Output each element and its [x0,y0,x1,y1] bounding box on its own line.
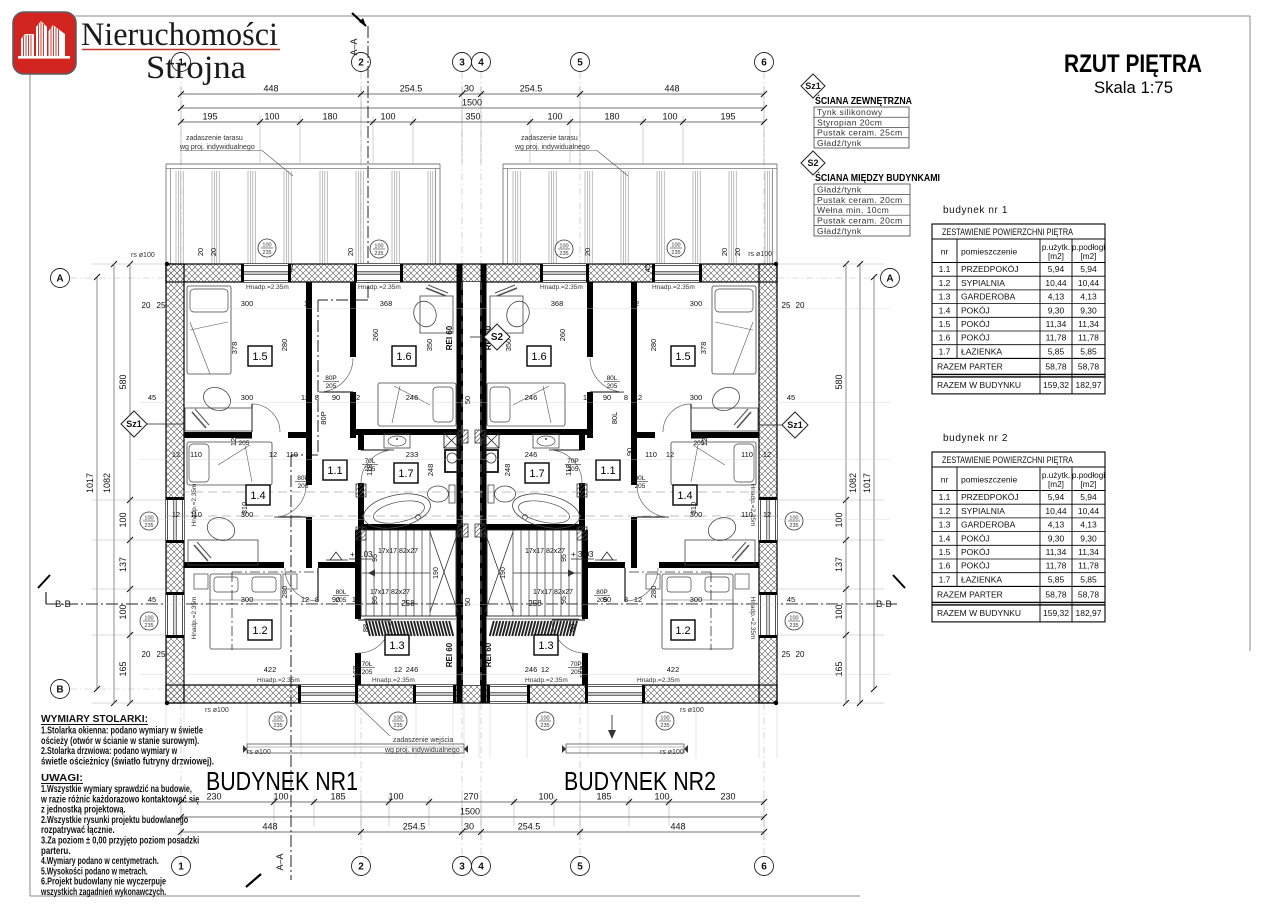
svg-text:ŁAZIENKA: ŁAZIENKA [961,574,1002,584]
svg-text:ZESTAWIENIE POWIERZCHNI PIĘT: ZESTAWIENIE POWIERZCHNI PIĘTRA [942,455,1073,465]
svg-text:258: 258 [401,599,415,608]
svg-text:182,97: 182,97 [1076,380,1102,390]
svg-text:A: A [56,274,63,285]
svg-text:1.4: 1.4 [677,490,692,502]
svg-text:Hnadp.=2.35m: Hnadp.=2.35m [257,677,300,684]
svg-text:248: 248 [426,464,435,477]
terrace roof building 1 [166,163,440,165]
svg-text:pomieszczenie: pomieszczenie [961,247,1017,257]
svg-text:9,30: 9,30 [1048,533,1065,543]
svg-text:+ 3.03: + 3.03 [350,550,373,559]
svg-text:4,13: 4,13 [1048,520,1065,530]
svg-text:58,78: 58,78 [1078,589,1100,599]
knee wall dashed line lower [166,515,777,517]
svg-text:1.4: 1.4 [939,305,951,315]
svg-text:12: 12 [172,510,180,519]
window label circle 100/235 [656,712,674,730]
legend table S2 wall layers [814,184,910,236]
svg-text:100: 100 [671,243,680,249]
svg-text:88: 88 [361,624,370,632]
svg-text:25: 25 [782,650,791,659]
window left wall room 1.4 [166,500,184,540]
svg-text:RAZEM PARTER: RAZEM PARTER [937,589,1003,599]
svg-text:Hnadp.=2.35m: Hnadp.=2.35m [372,677,415,684]
section A-A polyline [367,26,369,300]
svg-text:1.5: 1.5 [675,351,690,363]
furniture building 2 [712,286,756,374]
svg-text:12: 12 [172,450,180,459]
bottom dim extension lines [180,796,182,840]
bottom dim row subdivisions [181,801,764,803]
svg-text:1.5: 1.5 [939,319,951,329]
svg-text:A: A [886,274,893,285]
svg-text:S2: S2 [807,158,818,168]
party wall REI60 left leaf [457,264,463,703]
svg-text:1.1: 1.1 [939,264,951,274]
svg-text:45: 45 [787,393,795,402]
svg-text:254.5: 254.5 [520,84,543,94]
svg-text:5,94: 5,94 [1080,264,1097,274]
top dim row 1500 [181,107,764,109]
svg-text:90: 90 [625,448,634,456]
svg-text:Hnadp.=2.35m: Hnadp.=2.35m [525,677,568,684]
party wall REI60 right leaf [481,264,487,703]
svg-text:205: 205 [362,669,373,676]
svg-text:159,32: 159,32 [1043,380,1069,390]
section B-B left marker [38,575,50,588]
interior walls building 1 [306,282,312,485]
svg-text:8: 8 [315,595,319,604]
svg-text:2: 2 [358,862,364,873]
svg-text:REI 60: REI 60 [445,642,454,667]
svg-text:100: 100 [660,716,669,722]
svg-text:205: 205 [694,440,705,447]
svg-text:pomieszczenie: pomieszczenie [961,475,1017,485]
svg-text:280: 280 [649,339,658,352]
svg-text:12: 12 [763,450,771,459]
svg-text:100: 100 [654,792,669,802]
top dim row subdivisions [181,121,764,123]
svg-text:58,78: 58,78 [1045,589,1067,599]
svg-text:95: 95 [372,554,379,562]
svg-text:350: 350 [425,339,434,352]
svg-text:20: 20 [796,650,805,659]
svg-text:p.użytk.: p.użytk. [1042,243,1070,252]
svg-text:1.7: 1.7 [939,574,951,584]
bathroom 1.7 fixtures bldg1 [384,434,410,448]
svg-text:1017: 1017 [85,473,95,493]
svg-text:70L: 70L [362,661,373,668]
svg-text:12: 12 [541,665,549,674]
svg-text:100: 100 [538,792,553,802]
svg-text:[m2]: [m2] [1081,252,1097,261]
svg-text:260: 260 [558,329,567,342]
window top wall room 1.6 bldg1 [357,264,400,282]
svg-text:137: 137 [118,557,128,572]
svg-text:80L: 80L [610,412,619,425]
svg-text:zadaszenie tarasu: zadaszenie tarasu [521,135,578,142]
svg-text:300: 300 [241,299,254,308]
window bottom wall room 1.3 bldg2 [490,685,527,703]
svg-text:235: 235 [262,250,271,256]
svg-text:246: 246 [406,393,419,402]
svg-text:235: 235 [789,523,798,529]
svg-text:1.6: 1.6 [939,333,951,343]
corner dot left [165,262,169,266]
svg-text:448: 448 [262,822,277,832]
svg-text:11,78: 11,78 [1078,561,1099,571]
svg-text:12: 12 [301,393,309,402]
svg-text:100: 100 [273,716,282,722]
svg-text:1.6: 1.6 [396,351,411,363]
svg-text:Gładź/tynk: Gładź/tynk [817,138,862,148]
svg-text:246: 246 [525,665,538,674]
window label circle 100/235 [269,712,287,730]
svg-text:BUDYNEK NR2: BUDYNEK NR2 [564,768,716,796]
svg-text:310: 310 [689,502,698,515]
svg-text:10,44: 10,44 [1078,506,1100,516]
svg-text:1.3: 1.3 [939,520,951,530]
svg-text:GARDEROBA: GARDEROBA [961,292,1016,302]
svg-text:254.5: 254.5 [400,84,423,94]
svg-text:17x17,82x27: 17x17,82x27 [378,548,418,555]
window label circle 100/235 [140,512,158,530]
svg-text:88: 88 [568,624,577,632]
svg-text:UWAGI:: UWAGI: [41,772,83,784]
section B-B line [46,603,897,605]
svg-text:70P: 70P [567,458,579,465]
svg-text:100: 100 [374,244,383,250]
marker Sz1 right [782,412,808,438]
svg-text:RAZEM W BUDYNKU: RAZEM W BUDYNKU [937,608,1021,618]
exterior wall right [759,264,777,703]
svg-text:1.2: 1.2 [252,625,267,637]
svg-text:4,13: 4,13 [1048,292,1065,302]
svg-text:8: 8 [624,595,628,604]
level mark +3.03 bldg2 [601,552,613,560]
svg-text:12: 12 [352,595,360,604]
svg-text:368: 368 [551,299,564,308]
svg-text:Pustak ceram. 25cm: Pustak ceram. 25cm [817,128,903,138]
svg-text:448: 448 [670,822,685,832]
svg-text:248: 248 [503,464,512,477]
svg-text:422: 422 [264,665,277,674]
svg-text:8: 8 [315,393,319,402]
svg-text:budynek nr 2: budynek nr 2 [943,433,1008,444]
svg-text:POKÓJ: POKÓJ [961,547,990,557]
svg-text:RAZEM PARTER: RAZEM PARTER [937,361,1003,371]
svg-text:368: 368 [380,299,393,308]
svg-text:Hnadp.=2.35m: Hnadp.=2.35m [358,284,401,291]
svg-text:180: 180 [604,112,619,122]
svg-text:205: 205 [365,466,376,473]
svg-text:17x17,82x27: 17x17,82x27 [533,589,573,596]
svg-text:POKÓJ: POKÓJ [961,561,990,571]
interior dim row y=400 [140,402,890,404]
left dim 1017 [96,277,98,689]
svg-text:1.1: 1.1 [939,492,951,502]
svg-text:rs ø100: rs ø100 [660,749,684,756]
svg-text:230: 230 [206,792,221,802]
svg-text:Hnadp.=2.35m: Hnadp.=2.35m [191,484,198,527]
svg-text:6: 6 [761,862,767,873]
svg-text:95: 95 [561,554,568,562]
svg-text:Hnadp.=2.35m: Hnadp.=2.35m [246,284,289,291]
svg-text:Tynk silikonowy: Tynk silikonowy [817,107,883,117]
svg-text:A–A: A–A [275,853,285,870]
page border frame [75,15,1250,17]
svg-text:205: 205 [607,383,618,390]
exterior wall bottom [166,685,777,703]
svg-text:30: 30 [464,84,474,94]
svg-text:rs ø100: rs ø100 [247,749,271,756]
svg-text:8: 8 [624,393,628,402]
window top wall room 1.5 bldg2 [655,264,699,282]
svg-text:p.podłogi: p.podłogi [1072,471,1105,480]
svg-text:45: 45 [286,264,295,272]
svg-text:235: 235 [273,723,282,729]
svg-text:1082: 1082 [102,473,112,493]
svg-text:300: 300 [241,393,254,402]
svg-text:5: 5 [577,58,583,69]
svg-text:350: 350 [465,112,480,122]
svg-text:Gładź/tynk: Gładź/tynk [817,184,862,194]
svg-text:[m2]: [m2] [1048,252,1064,261]
window top wall room 1.6 bldg2 [543,264,586,282]
svg-text:1.4: 1.4 [250,490,265,502]
svg-text:235: 235 [374,251,383,257]
svg-text:Hnadp.=2.35m: Hnadp.=2.35m [749,597,756,640]
svg-text:1.7: 1.7 [529,468,544,480]
grid circles top 1-6 [172,53,191,72]
svg-text:[m2]: [m2] [1081,480,1097,489]
svg-text:12: 12 [763,510,771,519]
svg-text:205: 205 [571,669,582,676]
svg-text:p.podłogi: p.podłogi [1072,243,1105,252]
svg-text:zadaszenie tarasu: zadaszenie tarasu [186,135,243,142]
svg-text:20: 20 [733,248,742,256]
svg-text:5,85: 5,85 [1080,346,1097,356]
svg-text:235: 235 [789,623,798,629]
svg-text:1.2: 1.2 [939,278,951,288]
window label circle 100/235 [785,512,803,530]
svg-text:100: 100 [789,516,798,522]
corner dot right [774,262,778,266]
svg-text:20: 20 [346,248,355,256]
legend table Sz1 wall layers [814,107,909,148]
bathroom 1.7 fixtures bldg2 [533,434,559,448]
svg-text:REI 60: REI 60 [445,325,454,350]
wardrobe hatch room 1.3 bldg2 [487,618,579,620]
svg-text:1.1: 1.1 [600,465,615,477]
svg-text:246: 246 [525,450,538,459]
svg-text:3: 3 [459,862,465,873]
svg-text:ZESTAWIENIE POWIERZCHNI PIĘT: ZESTAWIENIE POWIERZCHNI PIĘTRA [942,227,1073,237]
svg-text:budynek nr 1: budynek nr 1 [943,205,1008,216]
svg-text:235: 235 [144,523,153,529]
window bottom wall room 1.2 bldg2 [588,685,642,703]
window top wall room 1.5 bldg1 [244,264,288,282]
window label circle 100/235 [258,239,276,257]
window label circle 100/235 [140,612,158,630]
svg-text:110: 110 [286,450,298,459]
svg-text:4,13: 4,13 [1080,292,1097,302]
svg-text:Hnadp.=2.35m: Hnadp.=2.35m [191,597,198,640]
room label 1.1 [596,460,620,480]
window right wall room 1.2 [759,595,777,635]
svg-text:159,32: 159,32 [1043,608,1069,618]
svg-text:95: 95 [561,596,568,604]
svg-text:448: 448 [263,84,278,94]
svg-text:rs ø100: rs ø100 [205,707,229,714]
svg-text:11,34: 11,34 [1078,547,1099,557]
svg-text:12: 12 [634,393,642,402]
svg-text:Hnadp.=2.35m: Hnadp.=2.35m [652,284,695,291]
svg-text:195: 195 [720,112,735,122]
svg-text:180: 180 [322,112,337,122]
svg-text:POKÓJ: POKÓJ [961,533,990,543]
svg-text:45: 45 [787,595,795,604]
svg-text:235: 235 [393,723,402,729]
svg-text:wszystkich zagadnień wykonawcz: wszystkich zagadnień wykonawczych. [40,887,166,898]
svg-text:12: 12 [666,450,674,459]
svg-text:5,94: 5,94 [1080,492,1097,502]
svg-text:9,30: 9,30 [1048,305,1065,315]
svg-text:ŁAZIENKA: ŁAZIENKA [961,346,1002,356]
grid circles bottom 1-6 [172,857,191,876]
room label 1.6 [392,346,416,366]
doors building 1 [251,404,253,432]
svg-text:Nieruchomości: Nieruchomości [81,17,278,53]
grid circle A right [881,269,900,288]
svg-text:1: 1 [178,862,184,873]
room label 1.4 [246,485,270,505]
svg-text:Hnadp.=2.35m: Hnadp.=2.35m [749,484,756,527]
svg-text:Hnadp.=2.35m: Hnadp.=2.35m [540,284,583,291]
svg-text:Sz1: Sz1 [126,419,142,429]
svg-text:1082: 1082 [848,473,858,493]
grid axis dashed lines 1-6 [180,72,182,264]
svg-text:4,13: 4,13 [1080,520,1097,530]
svg-text:195: 195 [202,112,217,122]
room label 1.7 [394,463,418,483]
right dim 1017 [873,277,875,689]
svg-text:205: 205 [326,383,337,390]
party wall gap [463,282,481,685]
window label circle 100/235 [536,712,554,730]
svg-text:1.6: 1.6 [939,561,951,571]
legend marker Sz1 diamond [801,74,825,98]
svg-text:[m2]: [m2] [1048,480,1064,489]
room label 1.5 [248,346,272,366]
svg-text:235: 235 [540,723,549,729]
svg-text:rs ø100: rs ø100 [748,251,772,258]
svg-text:11,78: 11,78 [1046,333,1067,343]
svg-text:SYPIALNIA: SYPIALNIA [961,506,1005,516]
legend marker S2 diamond [801,151,825,175]
svg-text:20: 20 [209,248,218,256]
exterior wall left [166,264,184,703]
svg-text:190: 190 [433,567,440,579]
svg-text:11,78: 11,78 [1046,561,1067,571]
svg-text:182,97: 182,97 [1076,608,1102,618]
svg-text:POKÓJ: POKÓJ [961,319,990,329]
svg-text:280: 280 [649,586,658,599]
svg-text:448: 448 [664,84,679,94]
terrace roof building 2 [503,163,777,165]
svg-text:nr: nr [941,247,949,257]
svg-text:Sz1: Sz1 [805,81,821,91]
svg-text:12: 12 [229,438,238,446]
svg-text:5: 5 [577,862,583,873]
right dim 1082 [859,264,861,703]
svg-text:185: 185 [330,792,345,802]
logo red tile [13,12,76,74]
svg-text:300: 300 [690,393,703,402]
marker S2 diamond [470,336,484,338]
room label 1.4 [673,485,697,505]
svg-text:100: 100 [118,604,128,619]
svg-text:100: 100 [789,616,798,622]
svg-text:S2: S2 [491,332,504,343]
svg-text:350: 350 [504,339,513,352]
svg-text:5,94: 5,94 [1048,492,1065,502]
svg-text:5,85: 5,85 [1048,346,1065,356]
svg-text:100: 100 [547,112,562,122]
svg-text:80P: 80P [325,375,337,382]
room label 1.2 [671,620,695,640]
svg-text:422: 422 [667,665,680,674]
porch arrow bldg2 [611,715,613,737]
top dim extension lines [180,86,182,163]
svg-text:Wełna min. 10cm: Wełna min. 10cm [817,205,889,215]
svg-text:11,34: 11,34 [1046,319,1067,329]
svg-text:110: 110 [741,450,753,459]
svg-text:20: 20 [720,248,729,256]
wardrobe hatch room 1.3 bldg1 [364,618,456,620]
svg-text:1.3: 1.3 [939,292,951,302]
furniture building 1 [187,286,231,374]
svg-text:wg proj. indywidualnego: wg proj. indywidualnego [514,144,590,151]
svg-text:90: 90 [304,448,313,456]
svg-text:zadaszenie wejścia: zadaszenie wejścia [393,737,453,744]
grid circle A left [51,269,70,288]
svg-text:300: 300 [690,299,703,308]
window label circle 100/235 [389,712,407,730]
svg-text:1: 1 [178,58,184,69]
svg-text:90: 90 [332,393,340,402]
svg-text:95: 95 [372,596,379,604]
svg-text:165: 165 [834,661,844,676]
svg-text:20: 20 [583,248,592,256]
top dim row 448/254.5/30/254.5/448 [181,93,764,95]
svg-text:110: 110 [190,450,202,459]
knee wall dashed line upper [166,491,777,493]
room label 1.3 [385,635,409,655]
svg-text:90: 90 [603,393,611,402]
svg-text:80L: 80L [607,375,618,382]
svg-text:254.5: 254.5 [403,822,426,832]
svg-text:205: 205 [597,597,608,604]
svg-text:4: 4 [478,862,484,873]
section A-A bottom marker [246,874,261,887]
grid circle B left [51,680,70,699]
interior walls building 2 [631,282,637,485]
svg-text:11,34: 11,34 [1046,547,1067,557]
svg-text:1.1: 1.1 [327,465,342,477]
hatched wall piers [356,484,366,497]
right dim chain 580/100/137/100/165 [845,264,847,703]
